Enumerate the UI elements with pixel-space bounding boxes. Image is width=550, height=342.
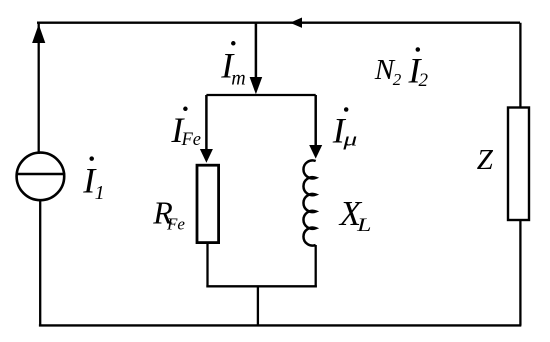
label Im dot <box>231 41 236 46</box>
svg-text:m: m <box>231 67 245 89</box>
svg-text:μ: μ <box>342 129 357 150</box>
wire RFe branch top <box>205 95 208 155</box>
resistor RFe box <box>197 165 219 242</box>
wire top rail <box>37 22 520 24</box>
wire parallel network top bar <box>206 94 315 96</box>
wire right branch upper <box>519 23 521 109</box>
wire left branch upper <box>38 23 40 154</box>
arrowhead down (Im) <box>250 77 263 94</box>
arrowhead up on left wire (I1 direction) <box>32 24 45 43</box>
wire RFe branch bottom <box>206 243 208 288</box>
wire middle connector to bottom rail <box>257 286 259 325</box>
label IFe dot <box>183 107 188 112</box>
wire parallel network bottom bar <box>206 285 316 287</box>
arrowhead left-pointing on top rail (current from Z branch) <box>290 18 302 28</box>
svg-text:L: L <box>356 215 372 236</box>
inductor XL coil <box>303 160 315 245</box>
wire XL branch bottom <box>315 245 317 287</box>
svg-text:Z: Z <box>477 144 494 176</box>
svg-text:Fe: Fe <box>166 214 185 233</box>
svg-text:1: 1 <box>95 182 105 204</box>
impedance Z box <box>508 108 529 221</box>
wire XL branch top <box>314 95 317 151</box>
label I1 dot <box>89 156 94 161</box>
label I2 dot <box>416 47 421 52</box>
wire Im middle vertical <box>255 23 258 90</box>
arrowhead down (Imu) <box>309 145 322 159</box>
arrowhead down (IFe) <box>200 149 213 163</box>
label Imu dot <box>344 107 349 112</box>
svg-text:2: 2 <box>419 70 429 91</box>
wire bottom rail <box>39 324 521 326</box>
current source I1 bar <box>16 173 65 176</box>
current source I1 circle <box>17 153 65 201</box>
svg-text:Fe: Fe <box>181 130 202 150</box>
wire right branch lower <box>519 219 521 326</box>
svg-text:2: 2 <box>393 70 402 89</box>
wire left branch lower <box>39 201 41 327</box>
